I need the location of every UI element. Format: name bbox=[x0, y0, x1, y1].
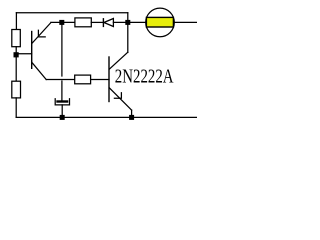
node J2 junction dot bbox=[59, 20, 64, 25]
transistor Q2 collector diagonal bbox=[109, 52, 128, 69]
wire emitter net y22.4 bbox=[51, 21, 75, 23]
wire capacitor feed lower (gap at crossing) bbox=[61, 81, 63, 101]
wire capacitor feed upper bbox=[61, 22, 63, 76]
transistor Q1 emitter arrow bbox=[38, 30, 45, 37]
capacitor C1 top plate bbox=[58, 100, 68, 102]
capacitor C1 bottom cup plate bbox=[55, 99, 69, 105]
wire Q1 collector to R3 bbox=[46, 79, 74, 81]
transistor Q1 bar bbox=[31, 32, 33, 69]
wire R4 to bottom rail bbox=[15, 98, 17, 117]
resistor R3 bbox=[75, 75, 91, 84]
wire R1 to R4 vertical bbox=[15, 47, 17, 81]
transistor Q2 emitter diagonal bbox=[109, 88, 131, 110]
node J4 junction dot bbox=[60, 115, 65, 120]
diode D1 cathode bar bbox=[102, 19, 104, 27]
wire top-left vertical bbox=[15, 13, 17, 30]
lamp L1 filament box (lit yellow) bbox=[146, 17, 173, 27]
wire R2 to D1 bbox=[91, 21, 103, 23]
wire bottom rail bbox=[16, 116, 197, 118]
wire top-right vertical bbox=[127, 13, 129, 53]
wire Q1 base bbox=[16, 53, 31, 55]
resistor R1 bbox=[12, 30, 20, 47]
diode D1 triangle bbox=[104, 19, 114, 27]
transistor Q2 bar bbox=[108, 57, 110, 102]
node J5 junction dot bbox=[129, 115, 134, 120]
wire lamp to right edge bbox=[174, 21, 197, 23]
wire capacitor to bottom rail bbox=[61, 105, 63, 117]
node J3 junction dot bbox=[125, 20, 130, 25]
wire R3 to Q2 base bbox=[91, 79, 109, 81]
svg-text:2N2222A: 2N2222A bbox=[115, 64, 174, 87]
node J1 junction dot bbox=[14, 52, 19, 57]
transistor Q1 emitter diagonal bbox=[32, 23, 51, 44]
wire D1 to J3 bbox=[113, 21, 145, 23]
wire top rail bbox=[16, 12, 127, 14]
transistor Q1 collector diagonal bbox=[32, 62, 46, 79]
resistor R4 bbox=[12, 81, 21, 98]
wire Q2 emitter to bottom rail bbox=[131, 110, 133, 117]
transistor Q2 emitter arrow bbox=[114, 93, 121, 99]
resistor R2 bbox=[75, 18, 91, 27]
lamp L1 circle bbox=[146, 8, 175, 37]
